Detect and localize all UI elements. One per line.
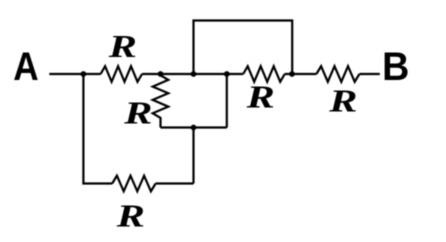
svg-text:B: B bbox=[382, 45, 409, 89]
svg-text:A: A bbox=[13, 44, 38, 89]
svg-text:R: R bbox=[328, 84, 357, 119]
svg-text:R: R bbox=[123, 96, 152, 131]
svg-text:R: R bbox=[245, 80, 274, 115]
svg-text:R: R bbox=[108, 30, 137, 65]
svg-text:R: R bbox=[116, 199, 145, 234]
